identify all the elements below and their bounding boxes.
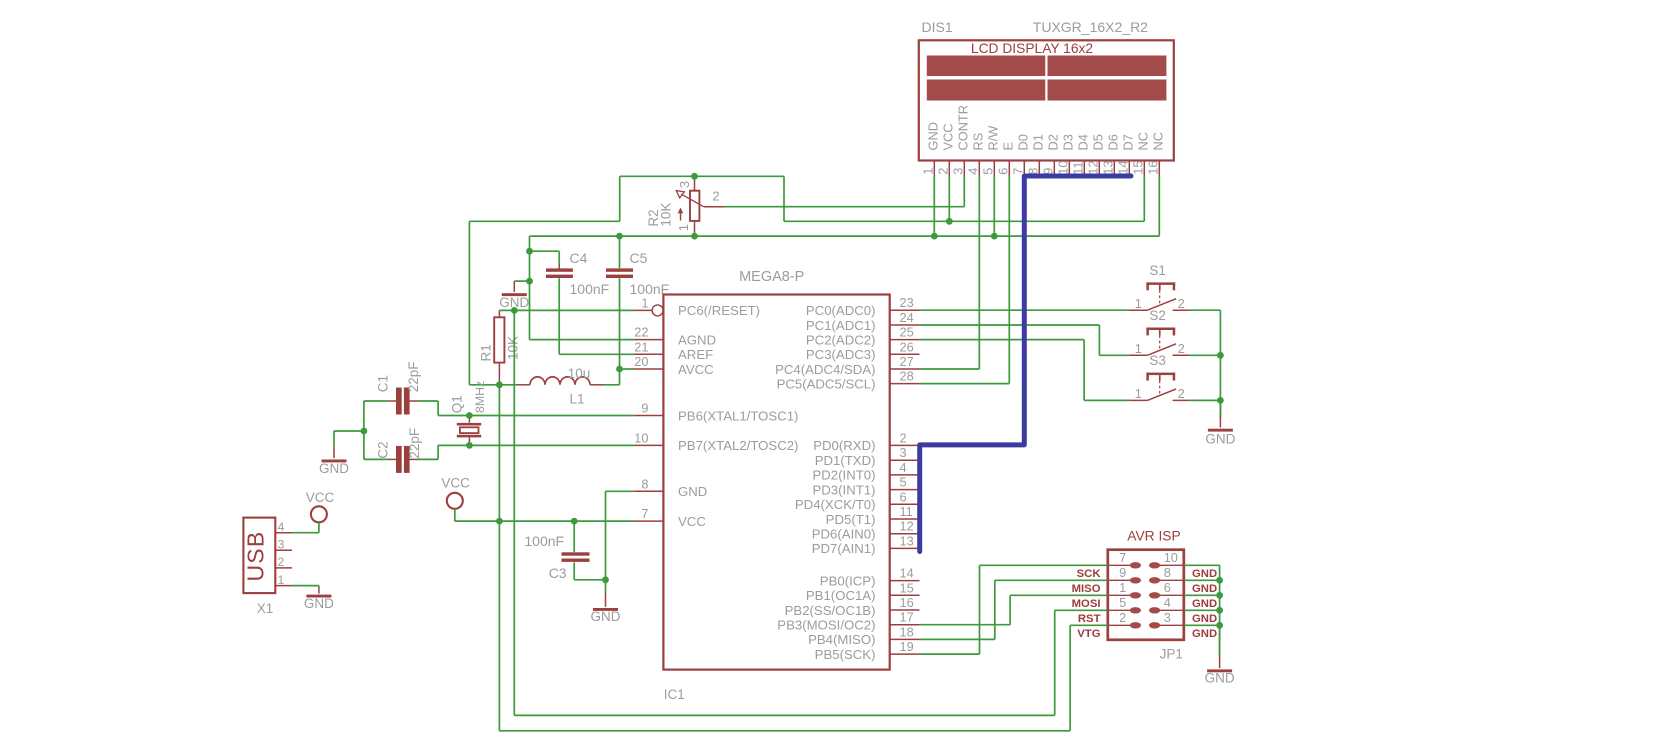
svg-text:GND: GND <box>1192 568 1217 580</box>
svg-text:PD6(AIN0): PD6(AIN0) <box>812 527 876 542</box>
svg-text:S1: S1 <box>1149 263 1166 278</box>
svg-text:1: 1 <box>920 168 935 175</box>
svg-text:100nF: 100nF <box>524 533 564 549</box>
svg-text:GND: GND <box>591 609 621 624</box>
svg-text:2: 2 <box>1178 386 1185 401</box>
svg-text:JP1: JP1 <box>1160 647 1183 662</box>
svg-text:14: 14 <box>900 566 914 581</box>
svg-text:AVCC: AVCC <box>678 362 714 377</box>
svg-text:1: 1 <box>676 224 691 231</box>
svg-text:PB0(ICP): PB0(ICP) <box>820 573 876 588</box>
svg-text:1: 1 <box>641 295 648 310</box>
svg-text:D6: D6 <box>1106 134 1121 150</box>
svg-text:2: 2 <box>713 188 720 203</box>
svg-text:12: 12 <box>1085 161 1100 175</box>
svg-text:10K: 10K <box>659 203 674 227</box>
svg-text:15: 15 <box>900 580 914 595</box>
svg-text:28: 28 <box>900 369 914 384</box>
svg-text:S3: S3 <box>1149 353 1166 368</box>
svg-text:PC0(ADC0): PC0(ADC0) <box>806 303 876 318</box>
svg-text:VCC: VCC <box>678 514 706 529</box>
svg-text:PB3(MOSI/OC2): PB3(MOSI/OC2) <box>777 618 875 633</box>
svg-text:GND: GND <box>926 122 941 150</box>
svg-text:4: 4 <box>965 168 980 175</box>
svg-text:27: 27 <box>900 354 914 369</box>
svg-text:1: 1 <box>278 573 285 587</box>
svg-text:PC2(ADC2): PC2(ADC2) <box>806 332 876 347</box>
svg-text:10: 10 <box>1164 550 1178 565</box>
svg-text:PD7(AIN1): PD7(AIN1) <box>812 541 876 556</box>
svg-text:8: 8 <box>641 476 648 491</box>
svg-text:PC4(ADC4/SDA): PC4(ADC4/SDA) <box>775 362 875 377</box>
svg-text:22: 22 <box>634 325 648 340</box>
svg-text:D1: D1 <box>1031 134 1046 150</box>
svg-text:GND: GND <box>304 596 334 611</box>
svg-text:C1: C1 <box>376 375 391 392</box>
svg-text:2: 2 <box>1119 610 1126 625</box>
svg-text:6: 6 <box>995 168 1010 175</box>
svg-text:3: 3 <box>1164 610 1171 625</box>
svg-text:GND: GND <box>1192 628 1217 640</box>
svg-text:R/W: R/W <box>986 125 1001 151</box>
svg-text:100nF: 100nF <box>570 281 610 297</box>
svg-text:AREF: AREF <box>678 347 713 362</box>
svg-text:PB7(XTAL2/TOSC2): PB7(XTAL2/TOSC2) <box>678 438 798 453</box>
svg-text:GND: GND <box>1192 583 1217 595</box>
svg-text:SCK: SCK <box>1077 568 1102 580</box>
svg-text:TUXGR_16X2_R2: TUXGR_16X2_R2 <box>1033 19 1148 35</box>
svg-text:23: 23 <box>900 295 914 310</box>
svg-text:13: 13 <box>900 533 914 548</box>
svg-text:PC6(/RESET): PC6(/RESET) <box>678 303 760 318</box>
svg-text:9: 9 <box>641 401 648 416</box>
svg-text:PD2(INT0): PD2(INT0) <box>812 468 875 483</box>
svg-text:PC1(ADC1): PC1(ADC1) <box>806 318 876 333</box>
svg-text:2: 2 <box>278 555 285 569</box>
svg-text:PB5(SCK): PB5(SCK) <box>815 647 876 662</box>
svg-text:4: 4 <box>900 460 907 475</box>
svg-text:GND: GND <box>1192 613 1217 625</box>
svg-text:R1: R1 <box>479 344 494 361</box>
svg-text:19: 19 <box>900 639 914 654</box>
svg-text:PC5(ADC5/SCL): PC5(ADC5/SCL) <box>777 376 876 391</box>
svg-text:2: 2 <box>1178 341 1185 356</box>
svg-text:7: 7 <box>1010 168 1025 175</box>
svg-text:3: 3 <box>900 445 907 460</box>
svg-text:1: 1 <box>1135 296 1142 311</box>
svg-text:22pF: 22pF <box>407 428 422 459</box>
svg-text:11: 11 <box>1070 162 1085 175</box>
svg-text:D4: D4 <box>1076 134 1091 150</box>
svg-text:11: 11 <box>900 504 913 519</box>
svg-text:6: 6 <box>1164 580 1171 595</box>
svg-text:5: 5 <box>900 475 907 490</box>
svg-text:GND: GND <box>1192 598 1217 610</box>
svg-text:3: 3 <box>677 181 692 188</box>
svg-text:MISO: MISO <box>1072 583 1101 595</box>
svg-text:25: 25 <box>900 325 914 340</box>
svg-text:20: 20 <box>634 354 648 369</box>
svg-text:2: 2 <box>900 430 907 445</box>
svg-text:Q1: Q1 <box>450 395 465 413</box>
svg-text:7: 7 <box>641 506 648 521</box>
svg-text:PD0(RXD): PD0(RXD) <box>813 438 875 453</box>
svg-text:8: 8 <box>1164 565 1171 580</box>
svg-text:C5: C5 <box>630 250 648 266</box>
svg-text:PD3(INT1): PD3(INT1) <box>812 482 875 497</box>
svg-text:RST: RST <box>1078 613 1101 625</box>
svg-text:PB4(MISO): PB4(MISO) <box>808 632 875 647</box>
svg-text:10u: 10u <box>568 366 591 381</box>
svg-text:GND: GND <box>319 461 349 476</box>
svg-text:VCC: VCC <box>441 475 470 490</box>
svg-text:5: 5 <box>980 168 995 175</box>
svg-text:1: 1 <box>1135 341 1142 356</box>
svg-text:C3: C3 <box>549 565 567 581</box>
svg-text:18: 18 <box>900 624 914 639</box>
svg-text:15: 15 <box>1130 161 1145 175</box>
svg-text:D3: D3 <box>1061 134 1076 150</box>
svg-text:PD5(T1): PD5(T1) <box>826 512 876 527</box>
svg-text:6: 6 <box>900 489 907 504</box>
svg-text:10: 10 <box>1055 161 1070 175</box>
svg-text:4: 4 <box>1164 595 1171 610</box>
svg-text:14: 14 <box>1115 161 1130 175</box>
svg-text:8MHz: 8MHz <box>473 381 487 413</box>
svg-text:GND: GND <box>1205 671 1235 686</box>
svg-text:AGND: AGND <box>678 332 716 347</box>
svg-text:D7: D7 <box>1121 134 1136 150</box>
svg-text:12: 12 <box>900 519 914 534</box>
svg-text:PB6(XTAL1/TOSC1): PB6(XTAL1/TOSC1) <box>678 408 798 423</box>
svg-text:PC3(ADC3): PC3(ADC3) <box>806 347 876 362</box>
svg-text:4: 4 <box>278 520 285 534</box>
svg-text:C2: C2 <box>376 441 391 458</box>
svg-text:13: 13 <box>1100 161 1115 175</box>
svg-text:L1: L1 <box>570 392 585 407</box>
svg-text:PB1(OC1A): PB1(OC1A) <box>806 588 876 603</box>
svg-text:GND: GND <box>678 484 707 499</box>
svg-text:C4: C4 <box>570 250 588 266</box>
svg-text:DIS1: DIS1 <box>922 19 953 35</box>
svg-text:5: 5 <box>1119 595 1126 610</box>
svg-text:X1: X1 <box>257 601 274 616</box>
svg-text:16: 16 <box>900 595 914 610</box>
svg-text:PB2(SS/OC1B): PB2(SS/OC1B) <box>785 603 876 618</box>
svg-text:9: 9 <box>1119 565 1126 580</box>
svg-text:VCC: VCC <box>941 123 956 150</box>
svg-text:3: 3 <box>950 168 965 175</box>
svg-text:E: E <box>1001 142 1016 151</box>
svg-text:CONTR: CONTR <box>956 105 971 151</box>
svg-text:16: 16 <box>1145 161 1160 175</box>
svg-text:D5: D5 <box>1091 134 1106 150</box>
svg-text:10: 10 <box>634 430 648 445</box>
svg-text:1: 1 <box>1119 580 1126 595</box>
svg-text:GND: GND <box>1205 432 1235 447</box>
svg-text:RS: RS <box>971 133 986 151</box>
svg-text:NC: NC <box>1136 132 1151 150</box>
svg-text:PD1(TXD): PD1(TXD) <box>815 453 876 468</box>
svg-text:PD4(XCK/T0): PD4(XCK/T0) <box>795 497 876 512</box>
svg-text:D2: D2 <box>1046 134 1061 150</box>
svg-text:MOSI: MOSI <box>1072 598 1101 610</box>
svg-text:AVR ISP: AVR ISP <box>1127 528 1180 543</box>
svg-text:NC: NC <box>1151 132 1166 150</box>
svg-text:10K: 10K <box>506 336 521 360</box>
svg-text:VCC: VCC <box>306 490 335 505</box>
svg-text:7: 7 <box>1119 550 1126 565</box>
svg-text:LCD DISPLAY 16x2: LCD DISPLAY 16x2 <box>971 41 1093 56</box>
svg-text:S2: S2 <box>1149 308 1166 323</box>
svg-text:2: 2 <box>1178 296 1185 311</box>
svg-text:2: 2 <box>935 168 950 175</box>
svg-text:24: 24 <box>900 310 914 325</box>
svg-text:1: 1 <box>1135 386 1142 401</box>
svg-text:21: 21 <box>634 339 648 354</box>
svg-text:3: 3 <box>278 538 285 552</box>
svg-text:D0: D0 <box>1016 134 1031 150</box>
svg-text:MEGA8-P: MEGA8-P <box>739 269 804 285</box>
svg-text:VTG: VTG <box>1077 628 1100 640</box>
svg-text:22pF: 22pF <box>406 362 421 393</box>
svg-text:USB: USB <box>243 531 269 582</box>
svg-text:IC1: IC1 <box>664 687 685 702</box>
svg-text:26: 26 <box>900 339 914 354</box>
svg-text:17: 17 <box>900 610 914 625</box>
